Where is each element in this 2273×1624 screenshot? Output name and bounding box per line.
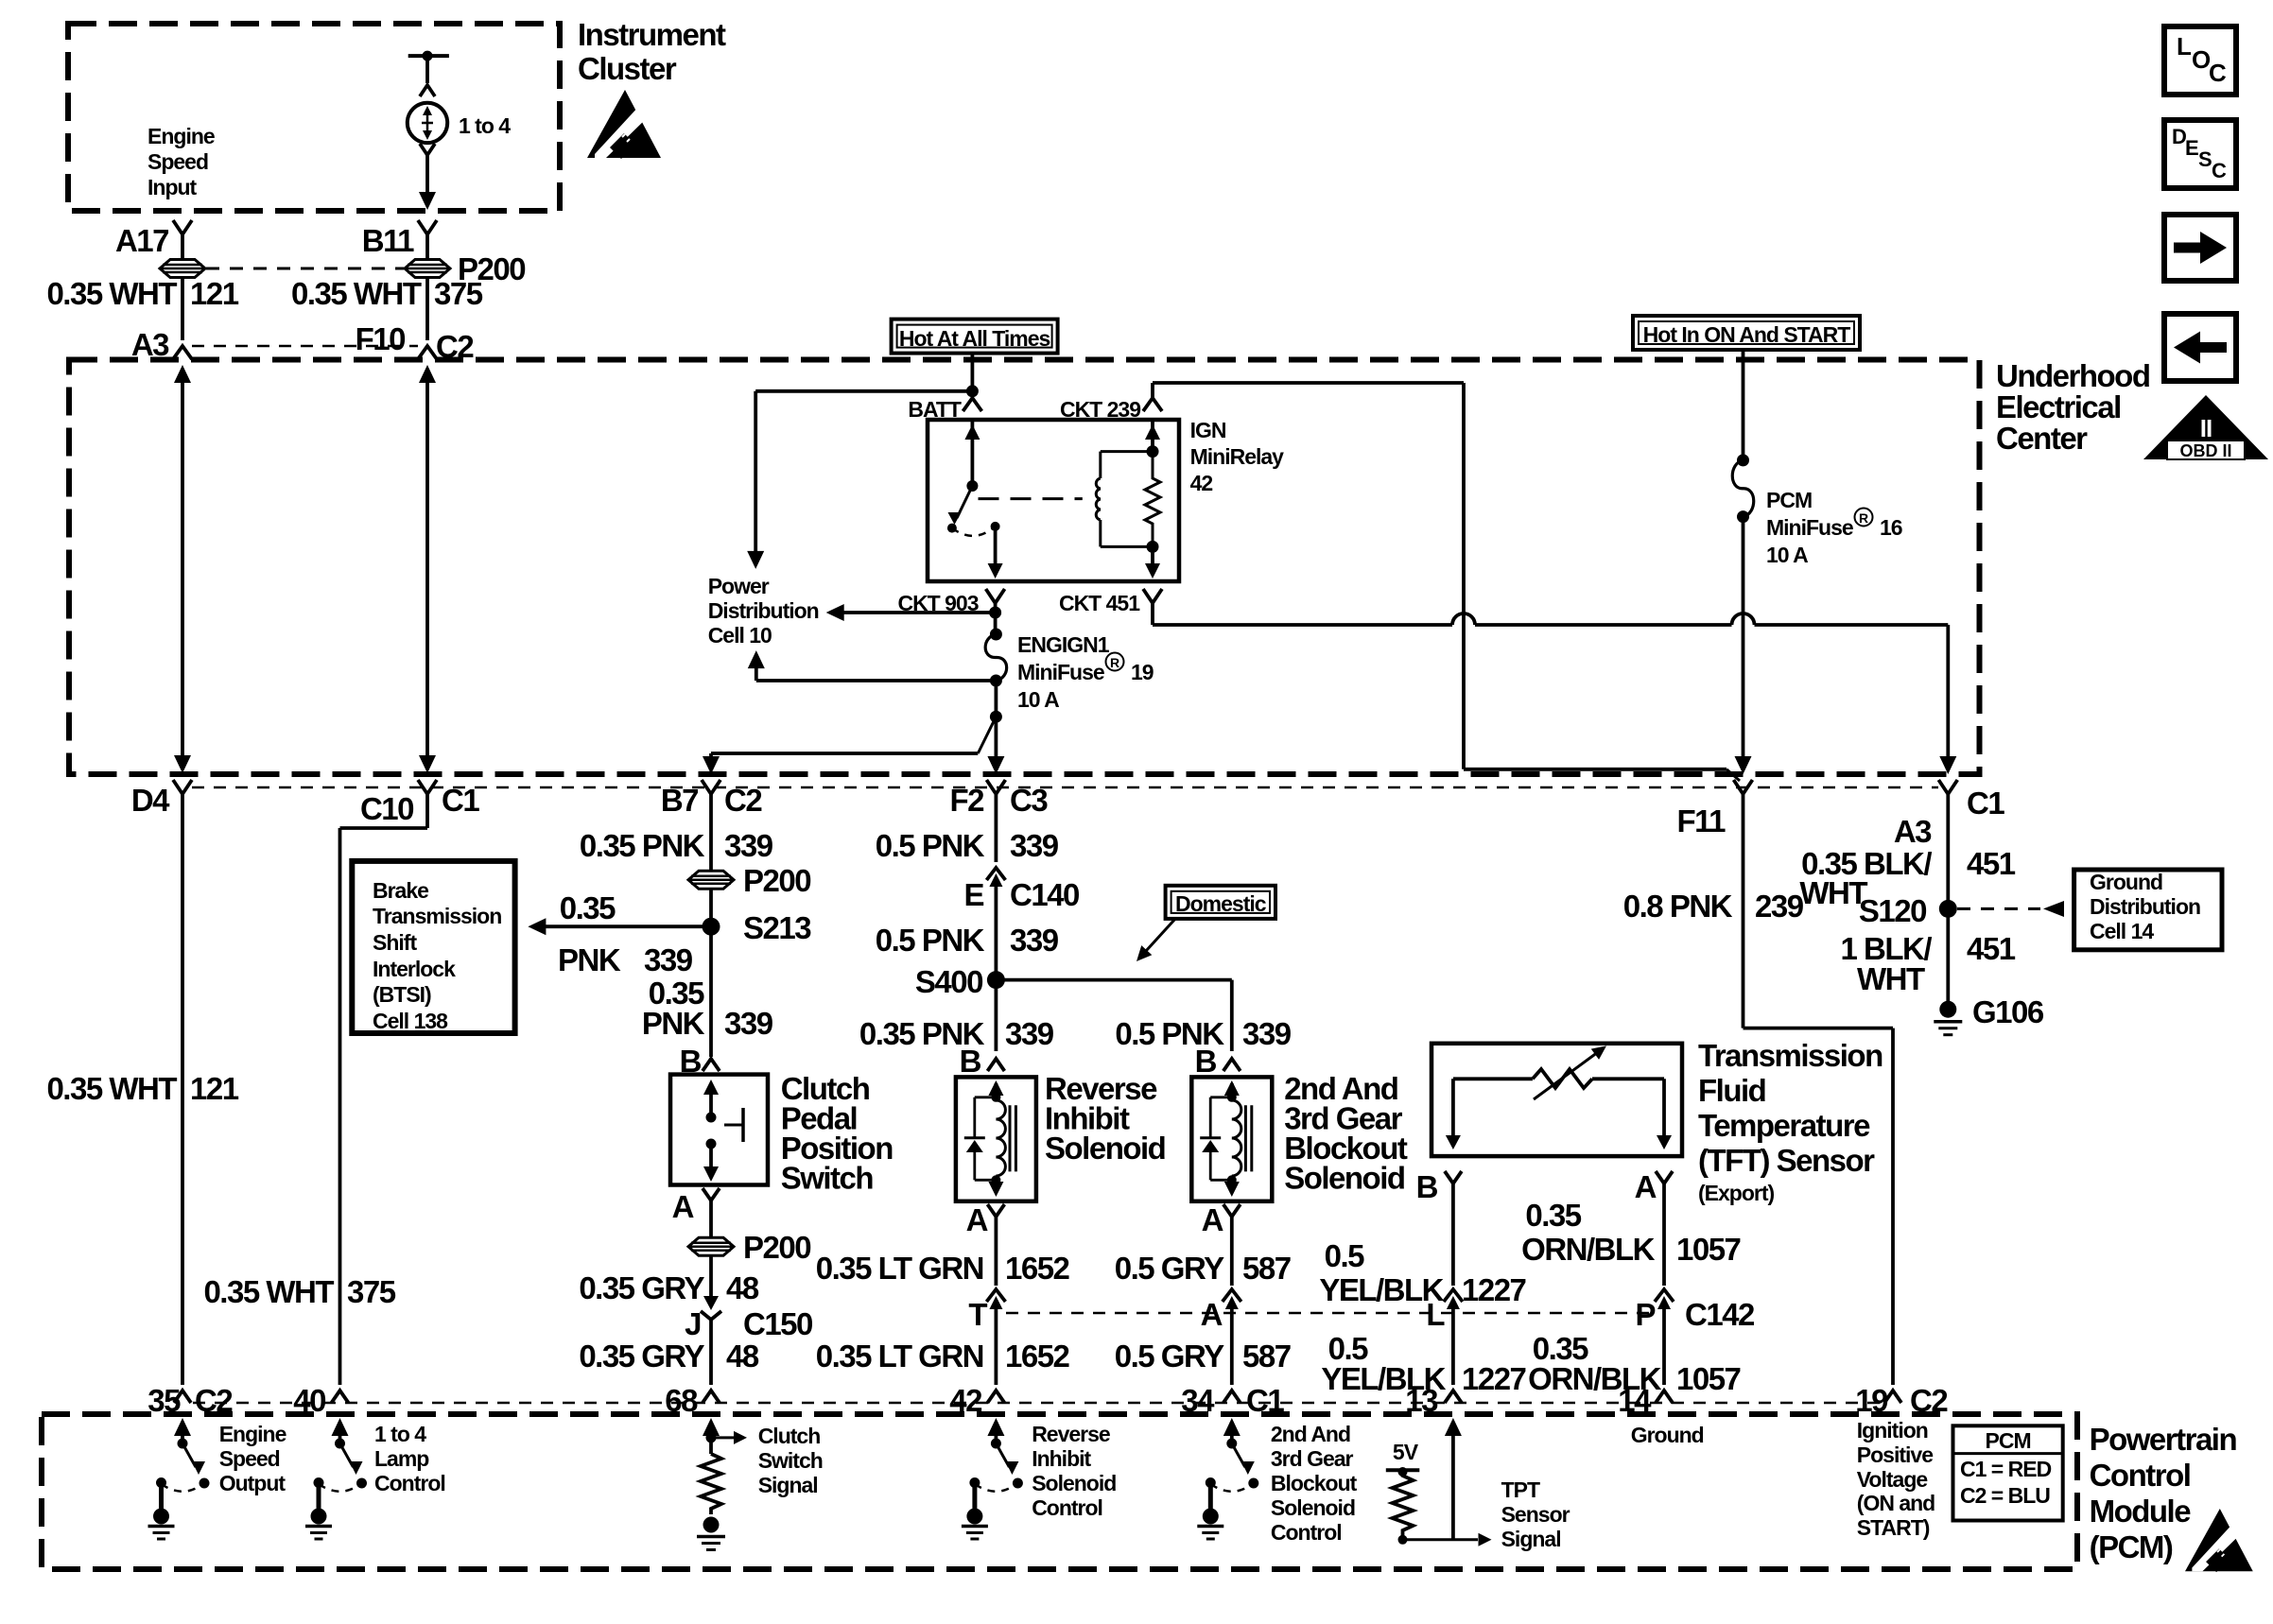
svg-text:Control: Control [374, 1471, 445, 1495]
svg-text:Solenoid: Solenoid [1032, 1471, 1116, 1495]
box: Brake Transmission Shift Interlock (BTSI) Cell 138 [352, 861, 514, 1033]
svg-text:48: 48 [726, 1339, 759, 1373]
svg-text:J: J [685, 1306, 701, 1341]
icon box: forward arrow [2164, 215, 2236, 281]
label: Transmission Fluid Temperature (TFT) Sensor (Export) [1698, 1038, 1883, 1205]
label: Power Distribution Cell 10 [708, 574, 819, 648]
svg-text:339: 339 [724, 828, 773, 863]
svg-text:0.35 LT GRN: 0.35 LT GRN [816, 1339, 983, 1373]
pin A17 [115, 220, 192, 258]
wire CKT 451 routing (relay to A3/C1) with hops [1153, 603, 1956, 774]
svg-text:Temperature: Temperature [1698, 1108, 1870, 1143]
svg-text:0.35 WHT: 0.35 WHT [46, 276, 177, 311]
pin B (reverse inhibit solenoid) [960, 1044, 1005, 1079]
solenoid L1: Reverse Inhibit Solenoid coil [988, 1080, 1005, 1197]
svg-text:0.5 GRY: 0.5 GRY [1115, 1339, 1224, 1373]
svg-text:0.5 PNK: 0.5 PNK [876, 828, 985, 863]
svg-text:D4: D4 [131, 783, 170, 818]
svg-text:Fluid: Fluid [1698, 1073, 1765, 1108]
pin A (clutch switch) [672, 1188, 720, 1224]
pin B (clutch switch) [680, 1044, 720, 1079]
svg-text:Sensor: Sensor [1501, 1502, 1570, 1527]
svg-text:Control: Control [1032, 1495, 1102, 1520]
svg-text:T: T [968, 1297, 987, 1332]
svg-text:239: 239 [1755, 889, 1804, 924]
svg-text:S213: S213 [743, 910, 811, 945]
svg-text:A: A [1201, 1297, 1223, 1332]
callout box: Ground Distribution Cell 14 [2074, 870, 2222, 950]
label: 0.5 PNK 339 (2nd/3rd) [1115, 1016, 1291, 1051]
svg-text:Ground: Ground [2090, 870, 2162, 894]
svg-text:Distribution: Distribution [2090, 894, 2200, 919]
svg-text:B: B [960, 1044, 981, 1079]
svg-text:(Export): (Export) [1698, 1181, 1775, 1205]
svg-text:C: C [2212, 159, 2227, 182]
svg-text:D: D [2172, 125, 2186, 148]
label: 0.5 GRY 587 (lower) [1115, 1339, 1291, 1373]
banner: Hot In ON And START [1633, 316, 1860, 350]
svg-text:Signal: Signal [758, 1473, 818, 1497]
svg-text:Cell 14: Cell 14 [2090, 919, 2154, 943]
svg-text:F2: F2 [949, 783, 984, 818]
svg-text:2nd And: 2nd And [1271, 1422, 1350, 1446]
PCM legend box: C1=RED C2=BLU [1953, 1425, 2063, 1520]
svg-text:19: 19 [1131, 660, 1154, 684]
svg-text:Solenoid: Solenoid [1045, 1131, 1165, 1166]
relay coil [1096, 452, 1153, 547]
pin BATT [908, 397, 981, 422]
svg-text:339: 339 [1010, 828, 1059, 863]
wire: Hot At All Times to BATT [966, 353, 979, 397]
pin 42 [949, 1383, 1004, 1418]
svg-text:587: 587 [1242, 1339, 1291, 1373]
svg-text:C1: C1 [1246, 1383, 1284, 1418]
svg-text:Cell 10: Cell 10 [708, 623, 772, 648]
PCM driver: 2nd And 3rd Gear Blockout Solenoid Control [1197, 1418, 1258, 1539]
svg-text:1 to 4: 1 to 4 [374, 1422, 426, 1446]
label: 0.5 GRY 587 [1115, 1251, 1291, 1286]
svg-text:MiniFuse: MiniFuse [1017, 660, 1104, 684]
fuse F: PCM MiniFuse 16 10A [1732, 454, 1754, 523]
svg-text:TPT: TPT [1501, 1477, 1540, 1502]
label: 0.35 PNK 339 (reverse inhibit) [859, 1016, 1054, 1051]
label: Reverse Inhibit Solenoid [1045, 1071, 1165, 1166]
clutch switch contacts [703, 1080, 743, 1182]
pin C10 / C1 [360, 780, 479, 826]
wire: fuse to F2 and B7 branch [703, 681, 1004, 774]
solenoid L1: Reverse Inhibit Solenoid box [956, 1077, 1036, 1201]
svg-text:0.35 WHT: 0.35 WHT [291, 276, 422, 311]
label: 0.35 ORN/BLK 1057 (lower) [1528, 1331, 1740, 1396]
svg-text:Underhood: Underhood [1996, 358, 2149, 393]
svg-text:C10: C10 [360, 791, 413, 826]
pin 13 [1405, 1383, 1462, 1418]
svg-text:Ignition: Ignition [1857, 1418, 1928, 1443]
svg-text:Domestic: Domestic [1175, 891, 1267, 916]
svg-text:Lamp: Lamp [374, 1446, 429, 1471]
switch S: Clutch Pedal Position Switch box [670, 1075, 768, 1185]
svg-text:0.8 PNK: 0.8 PNK [1623, 889, 1733, 924]
svg-text:0.35: 0.35 [1525, 1198, 1581, 1233]
svg-text:10 A: 10 A [1017, 687, 1059, 712]
svg-text:C1: C1 [442, 783, 479, 818]
fuse F: ENGIGN1 MiniFuse 19 10A [985, 629, 1007, 687]
icon: OBD II triangle [2143, 395, 2268, 460]
svg-text:MiniRelay: MiniRelay [1190, 444, 1285, 469]
label: Instrument Cluster [578, 17, 726, 86]
module box: Powertrain Control Module (PCM) [42, 1414, 2077, 1569]
connector P200 (clutch A) [688, 1201, 810, 1265]
svg-text:Transmission: Transmission [373, 904, 501, 928]
svg-text:1057: 1057 [1676, 1361, 1741, 1396]
svg-text:B11: B11 [362, 223, 414, 258]
icon box: LOC [2164, 26, 2236, 95]
svg-text:339: 339 [1005, 1016, 1054, 1051]
solenoid L2: 2nd And 3rd Gear Blockout Solenoid box [1191, 1077, 1272, 1201]
connector face dashed line C142 [1006, 1312, 1655, 1315]
svg-text:Input: Input [147, 175, 198, 199]
svg-text:Instrument: Instrument [578, 17, 726, 52]
svg-text:F11: F11 [1676, 803, 1726, 838]
pin F10 / C2 [356, 321, 475, 364]
sensor RT: Transmission Fluid Temperature (TFT) box [1431, 1044, 1682, 1156]
svg-text:14: 14 [1618, 1383, 1652, 1418]
connector P / C142 [1635, 1289, 1755, 1385]
svg-text:451: 451 [1967, 931, 2016, 966]
label: 1 BLK/WHT 451 [1840, 931, 2015, 996]
splice S120 [1859, 794, 1957, 1002]
svg-text:Ground: Ground [1631, 1423, 1704, 1447]
svg-text:Brake: Brake [373, 878, 428, 903]
svg-text:Signal: Signal [1501, 1527, 1561, 1551]
svg-text:68: 68 [665, 1383, 698, 1418]
svg-text:WHT: WHT [1857, 961, 1925, 996]
connector L (C142) [1426, 1289, 1463, 1385]
svg-text:1227: 1227 [1462, 1272, 1526, 1307]
pin D4 [131, 780, 192, 818]
svg-text:IGN: IGN [1190, 418, 1226, 442]
pin A (reverse inhibit solenoid) [966, 1202, 1005, 1286]
svg-text:121: 121 [190, 276, 239, 311]
svg-text:Cluster: Cluster [578, 51, 677, 86]
svg-text:CKT 451: CKT 451 [1059, 591, 1140, 615]
pin A (TFT) [1635, 1169, 1673, 1286]
svg-text:42: 42 [949, 1383, 982, 1418]
svg-text:Positive: Positive [1857, 1443, 1933, 1467]
wire 375: B11 to C2, 0.35 WHT [291, 276, 483, 340]
gauge '1 to 4' (speedometer sender) [408, 103, 511, 143]
pin CKT 451 [1059, 589, 1162, 615]
PCM driver: 2nd And 3rd Gear Blockout Solenoid Control label [1271, 1422, 1358, 1545]
svg-text:Powertrain: Powertrain [2090, 1422, 2237, 1457]
svg-text:Electrical: Electrical [1996, 389, 2121, 424]
svg-text:Hot At All Times: Hot At All Times [899, 326, 1050, 351]
PCM driver: Reverse Inhibit Solenoid Control label [1032, 1422, 1116, 1520]
pin B7 / C2 [661, 780, 763, 818]
svg-text:A: A [672, 1189, 694, 1224]
svg-text:0.35 WHT: 0.35 WHT [46, 1071, 177, 1106]
pin 40 [293, 1383, 348, 1418]
module box: Underhood Electrical Center [69, 360, 1980, 775]
svg-text:1057: 1057 [1676, 1232, 1741, 1267]
svg-text:Switch: Switch [781, 1161, 874, 1196]
solenoid L2: 2nd And 3rd Gear Blockout Solenoid clamp diode [1200, 1097, 1232, 1181]
wire 339: B7 to clutch switch, 0.35 PNK [580, 794, 773, 872]
svg-text:375: 375 [347, 1274, 396, 1309]
pin CKT 239 [1060, 397, 1162, 422]
PCM connector face dashed line [193, 1402, 1883, 1405]
pin F2 / C3 [949, 780, 1048, 818]
solenoid L2: 2nd And 3rd Gear Blockout Solenoid coil [1224, 1080, 1241, 1197]
PCM driver: Engine Speed Output [148, 1418, 210, 1539]
svg-text:B: B [1416, 1169, 1438, 1204]
label: 0.5 YEL/BLK 1227 (upper) [1319, 1238, 1525, 1307]
svg-text:0.35 LT GRN: 0.35 LT GRN [816, 1251, 983, 1286]
pin A3 [131, 327, 192, 362]
ground G106 [1934, 994, 2044, 1035]
svg-text:E: E [963, 877, 983, 912]
svg-text:C2: C2 [195, 1383, 233, 1418]
svg-text:A: A [1202, 1202, 1223, 1237]
icon box: DESC [2164, 120, 2236, 188]
svg-text:F10: F10 [356, 321, 406, 356]
svg-text:(PCM): (PCM) [2090, 1529, 2173, 1564]
svg-text:(ON and: (ON and [1857, 1491, 1935, 1515]
svg-text:P200: P200 [743, 863, 810, 898]
wire: S213 branch to BTSI, 0.35 PNK 339 [528, 890, 711, 977]
splice S400 [915, 964, 1005, 999]
svg-text:Shift: Shift [373, 930, 417, 955]
svg-text:P200: P200 [743, 1230, 810, 1265]
callout box: Domestic [1166, 886, 1275, 919]
svg-text:P: P [1635, 1297, 1655, 1332]
svg-text:C2 = BLU: C2 = BLU [1960, 1483, 2050, 1508]
svg-text:WHT: WHT [1799, 875, 1867, 910]
svg-text:1652: 1652 [1005, 1251, 1070, 1286]
svg-text:1227: 1227 [1462, 1361, 1526, 1396]
ESD symbol (instrument cluster) [587, 90, 661, 159]
connector P200 (B11 grommet) [405, 234, 525, 286]
pin 14 [1618, 1383, 1673, 1418]
svg-text:Distribution: Distribution [708, 598, 819, 623]
wire: BATT branch to Power Distribution [747, 391, 972, 569]
svg-text:START): START) [1857, 1515, 1930, 1540]
label: 0.5 YEL/BLK 1227 (lower) [1321, 1331, 1525, 1396]
label: 0.35 GRY 48 (C150 to PCM 68) [579, 1339, 759, 1373]
connector T (C142) [968, 1289, 1005, 1385]
label: TPT Sensor Signal [1501, 1477, 1570, 1551]
connector P200 (B7) [688, 863, 810, 898]
PCM 5V supply and TPT sensor signal [1386, 1418, 1492, 1546]
svg-text:339: 339 [1010, 923, 1059, 958]
label: Clutch Switch Signal [758, 1424, 823, 1497]
svg-text:A: A [966, 1202, 988, 1237]
svg-text:PNK: PNK [558, 942, 621, 977]
svg-text:B: B [1195, 1044, 1217, 1079]
dashed reference to Ground Distribution [1957, 901, 2064, 917]
svg-text:Speed: Speed [147, 149, 208, 174]
svg-text:R: R [1110, 655, 1119, 670]
svg-text:Interlock: Interlock [373, 957, 456, 981]
svg-text:1652: 1652 [1005, 1339, 1070, 1373]
label: Powertrain Control Module (PCM) [2090, 1422, 2237, 1564]
svg-text:C1 = RED: C1 = RED [1960, 1457, 2052, 1481]
svg-text:Solenoid: Solenoid [1284, 1161, 1404, 1196]
svg-text:S120: S120 [1859, 893, 1926, 928]
pin A3 / C1 (451) [1894, 780, 2005, 849]
svg-text:L: L [1426, 1297, 1445, 1332]
svg-text:MiniFuse: MiniFuse [1766, 515, 1853, 540]
relay K: IGN MiniRelay 42 box [928, 420, 1179, 581]
svg-text:PCM: PCM [1766, 488, 1812, 512]
svg-text:C2: C2 [724, 783, 762, 818]
relay switch pole [947, 420, 980, 533]
relay CKT239 leg arrows [1145, 420, 1160, 579]
svg-text:A: A [1635, 1169, 1657, 1204]
svg-text:S: S [2198, 147, 2212, 171]
svg-text:O: O [2192, 45, 2211, 74]
pin B11 [362, 220, 437, 258]
module box: Instrument Cluster [68, 24, 560, 211]
Domestic callout arrow [1136, 919, 1175, 961]
svg-text:339: 339 [724, 1006, 773, 1041]
pin 35 / C2 [147, 1383, 233, 1418]
svg-text:A3: A3 [131, 327, 169, 362]
svg-text:G106: G106 [1972, 994, 2044, 1029]
wire: PCM fuse to F11 [1735, 517, 1752, 774]
svg-text:3rd Gear: 3rd Gear [1271, 1446, 1354, 1471]
pin F11 [1676, 780, 1752, 838]
wire: A3 to D4 (engine speed) [174, 365, 191, 773]
gauge supply rail [408, 51, 449, 96]
svg-text:48: 48 [726, 1270, 759, 1305]
svg-text:339: 339 [1242, 1016, 1292, 1051]
icon box: back arrow [2164, 314, 2236, 381]
label: ENGIGN1 MiniFuse 19 10 A [1017, 632, 1154, 712]
svg-text:Engine: Engine [219, 1422, 286, 1446]
svg-text:40: 40 [293, 1383, 325, 1418]
svg-text:Center: Center [1996, 421, 2088, 456]
wire 375: C1 to PCM pin 40, 0.35 WHT [203, 794, 427, 1385]
wire: Hot In ON And START to PCM fuse [1742, 350, 1745, 460]
svg-text:0.35 GRY: 0.35 GRY [579, 1339, 704, 1373]
pin CKT 903 [897, 589, 1004, 615]
svg-text:339: 339 [644, 942, 693, 977]
wire: fuse output branch to Power Distribution (up arrow) [748, 650, 997, 681]
wire: C2 to C1 (1 to 4 lamp) [419, 365, 436, 773]
label: Engine Speed Input [147, 124, 215, 199]
svg-text:Inhibit: Inhibit [1032, 1446, 1091, 1471]
svg-text:Power: Power [708, 574, 770, 598]
solenoid L2: 2nd And 3rd Gear Blockout Solenoid core [1245, 1105, 1251, 1171]
PCM input: Clutch Switch Signal [697, 1418, 747, 1550]
wire CKT 239 routing (fuse node to relay coil) [1153, 383, 1740, 781]
pin 19 / C2 [1855, 1383, 1948, 1418]
relay coil suppression resistor [1145, 445, 1160, 553]
svg-text:B7: B7 [661, 783, 698, 818]
svg-text:34: 34 [1181, 1383, 1215, 1418]
svg-text:ORN/BLK: ORN/BLK [1521, 1232, 1655, 1267]
svg-text:0.35 PNK: 0.35 PNK [580, 828, 705, 863]
svg-text:(BTSI): (BTSI) [373, 982, 431, 1007]
label: 0.35 LT GRN 1652 (lower) [816, 1339, 1070, 1373]
svg-text:C: C [2209, 59, 2227, 87]
svg-text:OBD II: OBD II [2179, 441, 2231, 460]
svg-text:0.5 GRY: 0.5 GRY [1115, 1251, 1224, 1286]
pin B (2nd/3rd solenoid) [1195, 1044, 1241, 1079]
svg-text:Engine: Engine [147, 124, 215, 148]
wire 48: 0.35 GRY (to C150) [579, 1255, 759, 1305]
pin 34 / C1 [1181, 1383, 1284, 1418]
svg-text:375: 375 [434, 276, 483, 311]
PCM driver: 1 to 4 Lamp Control label [374, 1422, 445, 1495]
svg-text:19: 19 [1855, 1383, 1888, 1418]
label: 0.35 ORN/BLK 1057 (upper) [1521, 1198, 1740, 1267]
svg-text:0.5 PNK: 0.5 PNK [876, 923, 985, 958]
svg-text:Switch: Switch [758, 1448, 823, 1473]
relay mechanical link (dashed) [979, 497, 1083, 500]
svg-text:0.35 GRY: 0.35 GRY [579, 1270, 704, 1305]
svg-text:587: 587 [1242, 1251, 1291, 1286]
svg-text:ENGIGN1: ENGIGN1 [1017, 632, 1110, 657]
wire: S400 branch to 2nd/3rd solenoid [996, 980, 1231, 1051]
svg-text:Speed: Speed [219, 1446, 280, 1471]
svg-text:C150: C150 [743, 1306, 812, 1341]
label: 0.35 LT GRN 1652 [816, 1251, 1070, 1286]
svg-text:0.35 WHT: 0.35 WHT [203, 1274, 334, 1309]
label: IGN MiniRelay 42 [1190, 418, 1285, 495]
svg-text:0.35: 0.35 [560, 890, 616, 925]
svg-text:5V: 5V [1393, 1440, 1419, 1464]
connector P200 (A17 grommet) [160, 234, 205, 278]
svg-text:16: 16 [1880, 515, 1902, 540]
svg-text:C2: C2 [1910, 1383, 1948, 1418]
connector A (C142) [1201, 1289, 1241, 1385]
svg-text:Module: Module [2090, 1494, 2192, 1529]
banner: Hot At All Times [892, 320, 1058, 354]
svg-text:42: 42 [1190, 471, 1213, 495]
pin 68 [665, 1383, 720, 1418]
wire 121: D4 to PCM pin 35, 0.35 WHT [46, 794, 238, 1385]
underhood connector face dashed line [192, 786, 1938, 789]
svg-text:451: 451 [1967, 846, 2016, 881]
svg-text:121: 121 [190, 1071, 239, 1106]
svg-text:0.5: 0.5 [1325, 1238, 1365, 1273]
svg-text:A3: A3 [1894, 814, 1932, 849]
svg-text:Solenoid: Solenoid [1271, 1495, 1355, 1520]
label: PCM MiniFuse 16 10 A [1766, 488, 1902, 567]
svg-text:Voltage: Voltage [1857, 1467, 1928, 1492]
pin A (2nd/3rd solenoid) [1202, 1202, 1241, 1286]
svg-text:R: R [1859, 510, 1868, 526]
svg-text:C142: C142 [1685, 1297, 1755, 1332]
label: Clutch Pedal Position Switch [781, 1071, 894, 1196]
PCM driver: Engine Speed Output label [219, 1422, 286, 1495]
wire 121: A17 to A3, 0.35 WHT [46, 276, 238, 340]
svg-text:35: 35 [147, 1383, 181, 1418]
svg-text:(TFT) Sensor: (TFT) Sensor [1698, 1143, 1875, 1178]
svg-text:Control: Control [1271, 1520, 1342, 1545]
wire 339: F2, 0.5 PNK [876, 794, 1059, 863]
svg-text:PNK: PNK [642, 1006, 705, 1041]
label: 0.35 BLK/WHT 451 [1799, 846, 2015, 910]
P200 connector dashed link [206, 268, 404, 270]
label: 0.35 PNK 339 (S213 to clutch) [642, 976, 773, 1041]
svg-text:13: 13 [1405, 1383, 1438, 1418]
label: Underhood Electrical Center [1996, 358, 2149, 456]
wire CKT 903 to Power Distribution arrow [826, 603, 1001, 634]
svg-text:Cell 138: Cell 138 [373, 1009, 448, 1033]
